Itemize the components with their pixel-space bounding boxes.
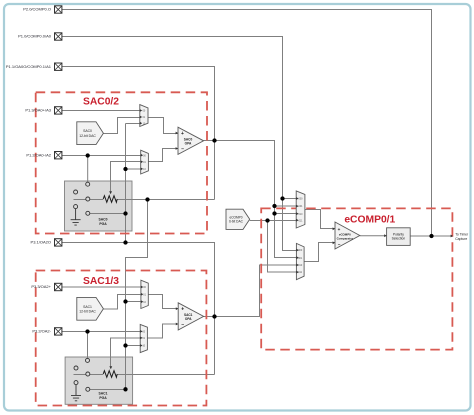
junction x=125 net at OA2O line — [123, 240, 127, 244]
svg-text:SAC1/3: SAC1/3 — [83, 276, 119, 287]
wire OPA1 output to eCOMP bottom mux row 10 — [204, 265, 297, 317]
wire SAC1 PGA tap arrow to negative mux row 01 — [111, 338, 141, 366]
wire SAC0 PGA bottom switch to x=125 net — [90, 213, 126, 215]
wire SAC1 PGA feedback resistor line — [74, 374, 104, 376]
svg-text:001: 001 — [299, 205, 304, 208]
PGA block SAC1 interior parts — [74, 358, 108, 400]
junction P3.2 net to PGA branch — [85, 329, 89, 333]
svg-text:P3.3/OA2+: P3.3/OA2+ — [31, 284, 51, 289]
op-amp U4 SAC1 OPA — [176, 303, 204, 330]
svg-text:SAC1: SAC1 — [98, 392, 107, 396]
svg-text:−: − — [181, 322, 184, 328]
svg-text:−: − — [338, 242, 341, 247]
pin P3.1/OA2O — [31, 239, 62, 246]
svg-text:001: 001 — [298, 257, 303, 260]
wire SAC0 PGA resistor to OA0O node — [117, 199, 214, 201]
junction OA2O net at eCOMP top mux row 10 — [272, 211, 276, 215]
SAC1/3 dashed module box — [36, 271, 207, 406]
wire branch P1.0 net into top eCOMP mux row 00 — [283, 198, 297, 200]
junction x=125 net at SAC0 negative mux row 10 — [123, 167, 127, 171]
junction cascade net at SAC1 negative mux row 10 — [123, 343, 127, 347]
junction x=125 net at SAC0 PGA switch — [123, 211, 127, 215]
svg-text:eCOMP0/1: eCOMP0/1 — [344, 214, 395, 225]
PGA block SAC0 interior parts — [74, 182, 108, 226]
wire SAC1 DAC output to positive mux row 01 — [103, 295, 140, 310]
svg-text:12-bit DAC: 12-bit DAC — [79, 309, 96, 313]
svg-text:P1.0/COMP0.0/A0: P1.0/COMP0.0/A0 — [18, 34, 52, 39]
wire cascade SAC0 PGA output to SAC1 input net — [126, 200, 148, 390]
wire branch cascade net into SAC1 negative mux row 10 — [126, 345, 141, 347]
junction comparator output to P2.0 — [429, 234, 433, 238]
wire P1.3/OA0+ pin to SAC0 positive mux row 00 — [62, 110, 140, 112]
svg-text:P3.2/OA2-: P3.2/OA2- — [32, 329, 51, 334]
wire SAC0 positive mux output to OPA0 + input — [148, 118, 178, 134]
junction on OPA0 output and P1.1 net — [212, 138, 216, 142]
resistor R SAC1 PGA — [103, 371, 117, 378]
svg-text:+: + — [338, 227, 341, 232]
wire P3.2/OA2- pin to SAC1 negative mux row 00 — [62, 331, 140, 333]
wire eCOMP top mux output to comparator + input — [305, 210, 335, 229]
wire branch OPA0 net into top eCOMP mux row 01 — [275, 205, 297, 207]
wire OPA0 output to eCOMP muxes — [204, 141, 297, 258]
wire SAC1 PGA bottom switch to cascade net — [90, 389, 126, 391]
junction SAC0 resistor to cascade — [145, 197, 149, 201]
DAC U3 SAC1 12-bit DAC — [77, 297, 104, 320]
svg-text:To Timer: To Timer — [455, 232, 469, 236]
DAC U5 eCOMP0 6-bit DAC — [226, 209, 250, 229]
junction cascade net at SAC1 positive mux row 10 — [123, 299, 127, 303]
wire polarity selection output to timer capture — [410, 235, 451, 237]
wire P3.3/OA2+ pin to SAC1 positive mux row 00 — [62, 286, 141, 288]
svg-text:SAC0: SAC0 — [98, 218, 107, 222]
PGA block SAC1 body — [65, 357, 133, 404]
svg-text:Comparator: Comparator — [337, 236, 354, 240]
svg-text:−: − — [181, 147, 184, 153]
mux SAC0 negative input — [141, 150, 149, 174]
eCOMP0/1 dashed module box — [261, 208, 452, 349]
junction OPA0 net at eCOMP top mux row 01 — [272, 204, 276, 208]
svg-text:P1.2/OA0-/A2: P1.2/OA0-/A2 — [26, 152, 51, 157]
arrow PGA tap into resistor SAC0 — [109, 191, 112, 194]
wire branch DAC net to bottom mux row 11 — [268, 221, 297, 273]
svg-text:OPA: OPA — [185, 142, 192, 146]
svg-text:010: 010 — [299, 213, 304, 216]
svg-text:12-bit DAC: 12-bit DAC — [79, 134, 96, 138]
wire branch P1.2 net down to SAC0 PGA switch — [87, 156, 89, 183]
svg-text:Capture: Capture — [455, 237, 467, 241]
mux SAC1 negative input — [140, 324, 147, 352]
svg-text:PGA: PGA — [99, 396, 107, 400]
resistor R SAC0 PGA — [103, 196, 117, 203]
svg-text:P1.3/OA0+/A3: P1.3/OA0+/A3 — [25, 108, 51, 113]
pin P2.0/COMP0.O — [23, 6, 62, 13]
wire P1.2/OA0- pin to SAC0 negative mux row 00 — [62, 155, 141, 157]
svg-text:010: 010 — [298, 264, 303, 267]
wire P2.0/COMP0.O net from pin to comparator output node — [62, 10, 432, 237]
polarity selection block — [384, 228, 410, 246]
mux eCOMP positive input — [296, 191, 305, 228]
svg-text:000: 000 — [299, 198, 304, 201]
pin P3.3/OA2+ — [31, 283, 62, 290]
svg-text:SAC0: SAC0 — [83, 129, 92, 133]
wire branch P3.2 net down to SAC1 PGA switch — [87, 332, 89, 359]
pin P3.2/OA2- — [32, 328, 62, 335]
arrow PGA tap into resistor SAC1 — [109, 366, 112, 369]
pin P1.2/OA0-/A2 — [26, 152, 62, 159]
wire eCOMP 6-bit DAC output to top mux row 11 — [250, 220, 297, 222]
wire SAC1 PGA resistor to OA2O node — [117, 374, 214, 376]
junction OA2O net on OPA1 output — [212, 314, 216, 318]
junction DAC net at eCOMP top mux row 11 — [265, 218, 269, 222]
PGA block SAC0 body — [65, 181, 133, 231]
pin P1.3/OA0+/A3 — [25, 107, 62, 114]
junction P1.0 net at eCOMP top mux row 00 — [280, 196, 284, 200]
wire SAC1 positive mux output to OPA1 + input — [148, 295, 178, 309]
svg-text:000: 000 — [298, 249, 303, 252]
mux SAC1 positive input — [141, 280, 148, 308]
wire SAC0 negative mux output to OPA0 - input — [148, 149, 178, 162]
arrow to timer capture — [451, 235, 453, 238]
wire branch OA2O net into top eCOMP mux row 10 — [275, 213, 297, 215]
wire P1.1/OA0O net from pin down to OPA0 output and feedback — [62, 67, 215, 200]
wire SAC0 PGA feedback resistor line — [74, 199, 104, 201]
mux SAC0 positive input — [140, 105, 148, 127]
svg-text:SAC0/2: SAC0/2 — [83, 97, 119, 108]
wire SAC0 DAC output to positive mux row 01 — [103, 118, 139, 134]
op-amp U2 SAC0 OPA — [176, 127, 204, 154]
svg-text:SAC1: SAC1 — [83, 305, 92, 309]
mux eCOMP negative input — [296, 243, 304, 279]
junction P1.2 net to PGA branch — [86, 153, 90, 157]
pin P1.1/OA0O/COMP0.1/A1 — [6, 63, 62, 70]
wire comparator output to polarity selection — [360, 235, 387, 237]
DAC U1 SAC0 12-bit DAC — [77, 122, 104, 145]
node To Timer Capture label — [455, 232, 469, 240]
svg-text:P1.1/OA0O/COMP0.1/A1: P1.1/OA0O/COMP0.1/A1 — [6, 64, 52, 69]
svg-text:6-bit DAC: 6-bit DAC — [229, 220, 244, 224]
wire branch cascade net into SAC1 positive mux row 10 — [126, 301, 141, 303]
wire SAC0 PGA net vertical x=125 to mux rows and OA2O line — [126, 124, 140, 243]
svg-text:011: 011 — [299, 220, 303, 223]
junction cascade net at SAC1 PGA switch — [123, 387, 127, 391]
SAC0/2 dashed module box — [36, 92, 207, 233]
svg-text:011: 011 — [298, 271, 302, 274]
wire eCOMP bottom mux output to comparator - input — [304, 243, 335, 262]
wire branch x=125 net into SAC0 negative mux row 10 — [126, 168, 141, 170]
svg-text:P3.1/OA2O: P3.1/OA2O — [31, 240, 51, 245]
svg-text:+: + — [181, 307, 184, 313]
svg-text:P2.0/COMP0.O: P2.0/COMP0.O — [23, 7, 51, 12]
ground SAC0 PGA — [71, 209, 81, 226]
wire P3.1/OA2O pin down across SAC1 output to SAC1 PGA feedback — [62, 243, 215, 375]
comparator U6 eCOMP0 — [333, 222, 360, 249]
svg-text:PGA: PGA — [99, 222, 107, 226]
wire SAC1 negative mux output to OPA1 - input — [147, 324, 178, 338]
wire SAC0 PGA tap arrow to negative mux row 01 — [111, 162, 141, 192]
svg-text:+: + — [181, 131, 184, 137]
wire P1.0/COMP0.0 net from pin to eCOMP mux inputs — [62, 37, 296, 251]
svg-text:Selection: Selection — [392, 237, 406, 241]
pin P1.0/COMP0.0/A0 — [18, 33, 62, 40]
ground SAC1 PGA — [71, 385, 81, 401]
svg-text:OPA: OPA — [185, 317, 192, 321]
